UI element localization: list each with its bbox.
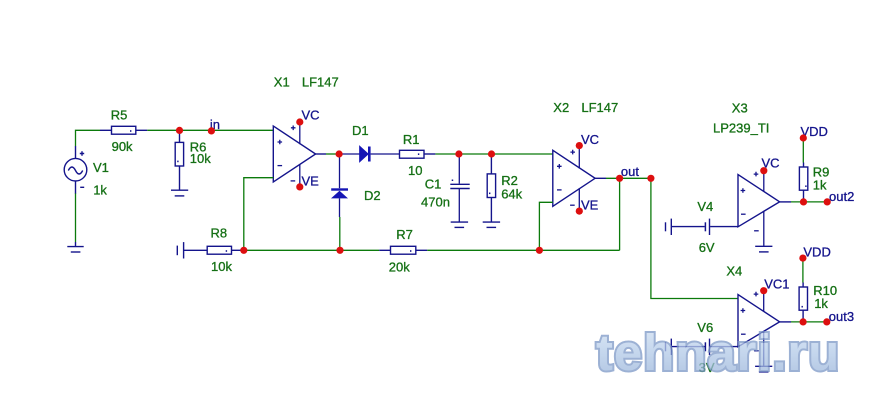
comparator X4	[738, 295, 780, 347]
node dot VDD upper	[800, 134, 807, 141]
node dot R2 top	[488, 150, 495, 157]
svg-text:VC1: VC1	[764, 276, 789, 291]
svg-text:LP239_TI: LP239_TI	[713, 121, 769, 136]
ground below R6	[171, 190, 188, 196]
node dot rail R8	[240, 247, 247, 254]
resistor R7	[379, 246, 427, 254]
wire out to rail riser	[619, 178, 621, 250]
comparator X3	[738, 175, 780, 227]
battery V4	[666, 219, 739, 235]
wire X2 -in riser	[539, 202, 552, 250]
node dot out-X4 branch	[647, 175, 654, 182]
svg-text:1k: 1k	[814, 296, 828, 311]
capacitor C1	[450, 154, 469, 222]
node dot rail D2	[336, 247, 343, 254]
wire R1 to X2 +in	[435, 153, 552, 155]
svg-text:out3: out3	[829, 309, 854, 324]
node dot X1 out	[336, 150, 343, 157]
node dot X2 VE	[576, 208, 583, 215]
node dot X3 VC	[760, 167, 767, 174]
svg-text:X1: X1	[274, 74, 290, 89]
node dot out3	[823, 318, 830, 325]
node dot in	[208, 127, 215, 134]
svg-text:LF147: LF147	[581, 100, 618, 115]
SECTION: V1 source	[64, 130, 109, 252]
svg-text:C1: C1	[425, 176, 442, 191]
svg-text:tehnari.ru: tehnari.ru	[596, 324, 840, 381]
resistor R5	[100, 126, 147, 134]
diode D1	[339, 147, 399, 162]
SECTION: X3 comparator	[666, 100, 855, 255]
SECTION: junction dots	[176, 118, 831, 325]
svg-text:64k: 64k	[501, 186, 522, 201]
SECTION: R5 R6 input network	[100, 108, 273, 196]
resistor R8	[184, 246, 244, 254]
diode D2	[331, 154, 348, 217]
SECTION: X4 comparator	[666, 244, 855, 375]
svg-text:D2: D2	[364, 188, 381, 203]
svg-text:out: out	[621, 164, 639, 179]
node dot C1 top	[455, 150, 462, 157]
ground below V1	[67, 242, 83, 252]
svg-text:VC: VC	[302, 108, 320, 123]
wire rail R8 to R7	[244, 249, 379, 251]
svg-text:V4: V4	[697, 199, 713, 214]
svg-text:6V: 6V	[699, 240, 715, 255]
svg-text:out2: out2	[829, 189, 854, 204]
node dot X3 out	[800, 198, 807, 205]
node dot X4 VC1	[760, 287, 767, 294]
svg-text:R7: R7	[396, 227, 413, 242]
source V1	[64, 146, 87, 194]
svg-text:VDD: VDD	[803, 244, 830, 259]
battery V6	[666, 339, 739, 355]
SECTION: bottom rail R8 R7	[177, 226, 619, 275]
node dot R5-R6	[176, 127, 183, 134]
svg-text:LF147: LF147	[302, 74, 339, 89]
node dot X4 out	[800, 318, 807, 325]
node dot rail X2 riser	[536, 247, 543, 254]
resistor R9	[799, 163, 807, 202]
svg-text:10: 10	[408, 163, 422, 178]
wire X3 out	[780, 201, 791, 203]
wire X1 -in riser	[244, 178, 273, 251]
svg-text:10k: 10k	[211, 259, 232, 274]
wire X2 out	[595, 177, 606, 179]
wire rail R7 to riser	[427, 249, 619, 251]
svg-text:R1: R1	[403, 132, 420, 147]
SECTION: D1 D2 R1	[331, 123, 553, 250]
wire D2 to rail	[339, 217, 341, 250]
ground below C1	[451, 222, 468, 227]
svg-text:X2: X2	[553, 100, 569, 115]
svg-text:R8: R8	[211, 226, 228, 241]
node dot X1 VC	[296, 118, 303, 125]
svg-text:R5: R5	[111, 108, 128, 123]
node dot out	[616, 175, 623, 182]
wire X1 out	[326, 153, 339, 155]
wire R5 to X1 +in	[147, 129, 273, 131]
ground below R2	[483, 222, 500, 227]
ground below X3	[755, 246, 772, 252]
svg-text:20k: 20k	[389, 260, 410, 275]
resistor R2	[487, 154, 495, 222]
node dot out2	[824, 198, 831, 205]
SECTION: C1 R2	[421, 154, 523, 227]
wire V1 bottom to ground	[75, 193, 77, 242]
svg-text:X3: X3	[732, 100, 748, 115]
SECTION: X2 opamp	[539, 100, 738, 299]
ground left of R8	[177, 242, 183, 258]
svg-text:1k: 1k	[93, 182, 107, 197]
node dot VDD lower	[799, 255, 806, 262]
op-amp X1	[273, 126, 315, 182]
node dot X1 VE	[296, 183, 303, 190]
svg-text:V1: V1	[93, 160, 109, 175]
svg-text:VC: VC	[581, 132, 599, 147]
wire V1 top to R5	[76, 130, 101, 146]
wire VDD to R9	[802, 138, 804, 163]
wire VDD to R10	[802, 258, 804, 282]
svg-text:1k: 1k	[813, 178, 827, 193]
svg-text:VE: VE	[302, 173, 320, 188]
wire junction to X4 +in	[651, 178, 738, 298]
ground below X4	[755, 366, 772, 372]
svg-text:D1: D1	[352, 123, 369, 138]
resistor R10	[799, 283, 807, 322]
resistor R6	[175, 130, 183, 189]
svg-text:VE: VE	[581, 198, 599, 213]
node dot X2 VC	[576, 142, 583, 149]
svg-text:470n: 470n	[421, 194, 450, 209]
svg-text:X4: X4	[726, 263, 742, 278]
SECTION: X1 opamp	[244, 74, 339, 250]
op-amp X2	[553, 150, 595, 206]
wire X4 out	[780, 321, 791, 323]
resistor R1	[400, 150, 436, 158]
svg-text:10k: 10k	[190, 151, 211, 166]
svg-text:90k: 90k	[112, 139, 133, 154]
